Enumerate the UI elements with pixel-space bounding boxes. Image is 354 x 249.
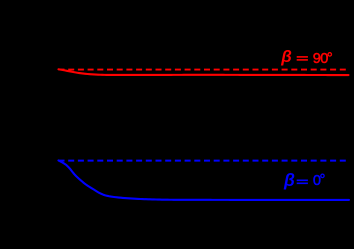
- red dashed reference line (beta=90 initial level): [59, 69, 349, 71]
- svg-text:°: °: [327, 49, 333, 66]
- red solid curve (beta=90): [59, 69, 349, 75]
- label beta = 90 degrees (red): [280, 47, 332, 67]
- svg-text:β: β: [283, 170, 295, 190]
- label beta = 0 degrees (blue): [283, 170, 326, 190]
- blue solid curve (beta=0): [59, 160, 350, 199]
- blue dashed reference line (beta=0 initial level): [59, 160, 349, 162]
- svg-text:°: °: [320, 172, 326, 188]
- svg-text:β: β: [280, 47, 292, 66]
- red label: equals sign: [297, 56, 308, 58]
- blue label: equals sign: [297, 180, 308, 182]
